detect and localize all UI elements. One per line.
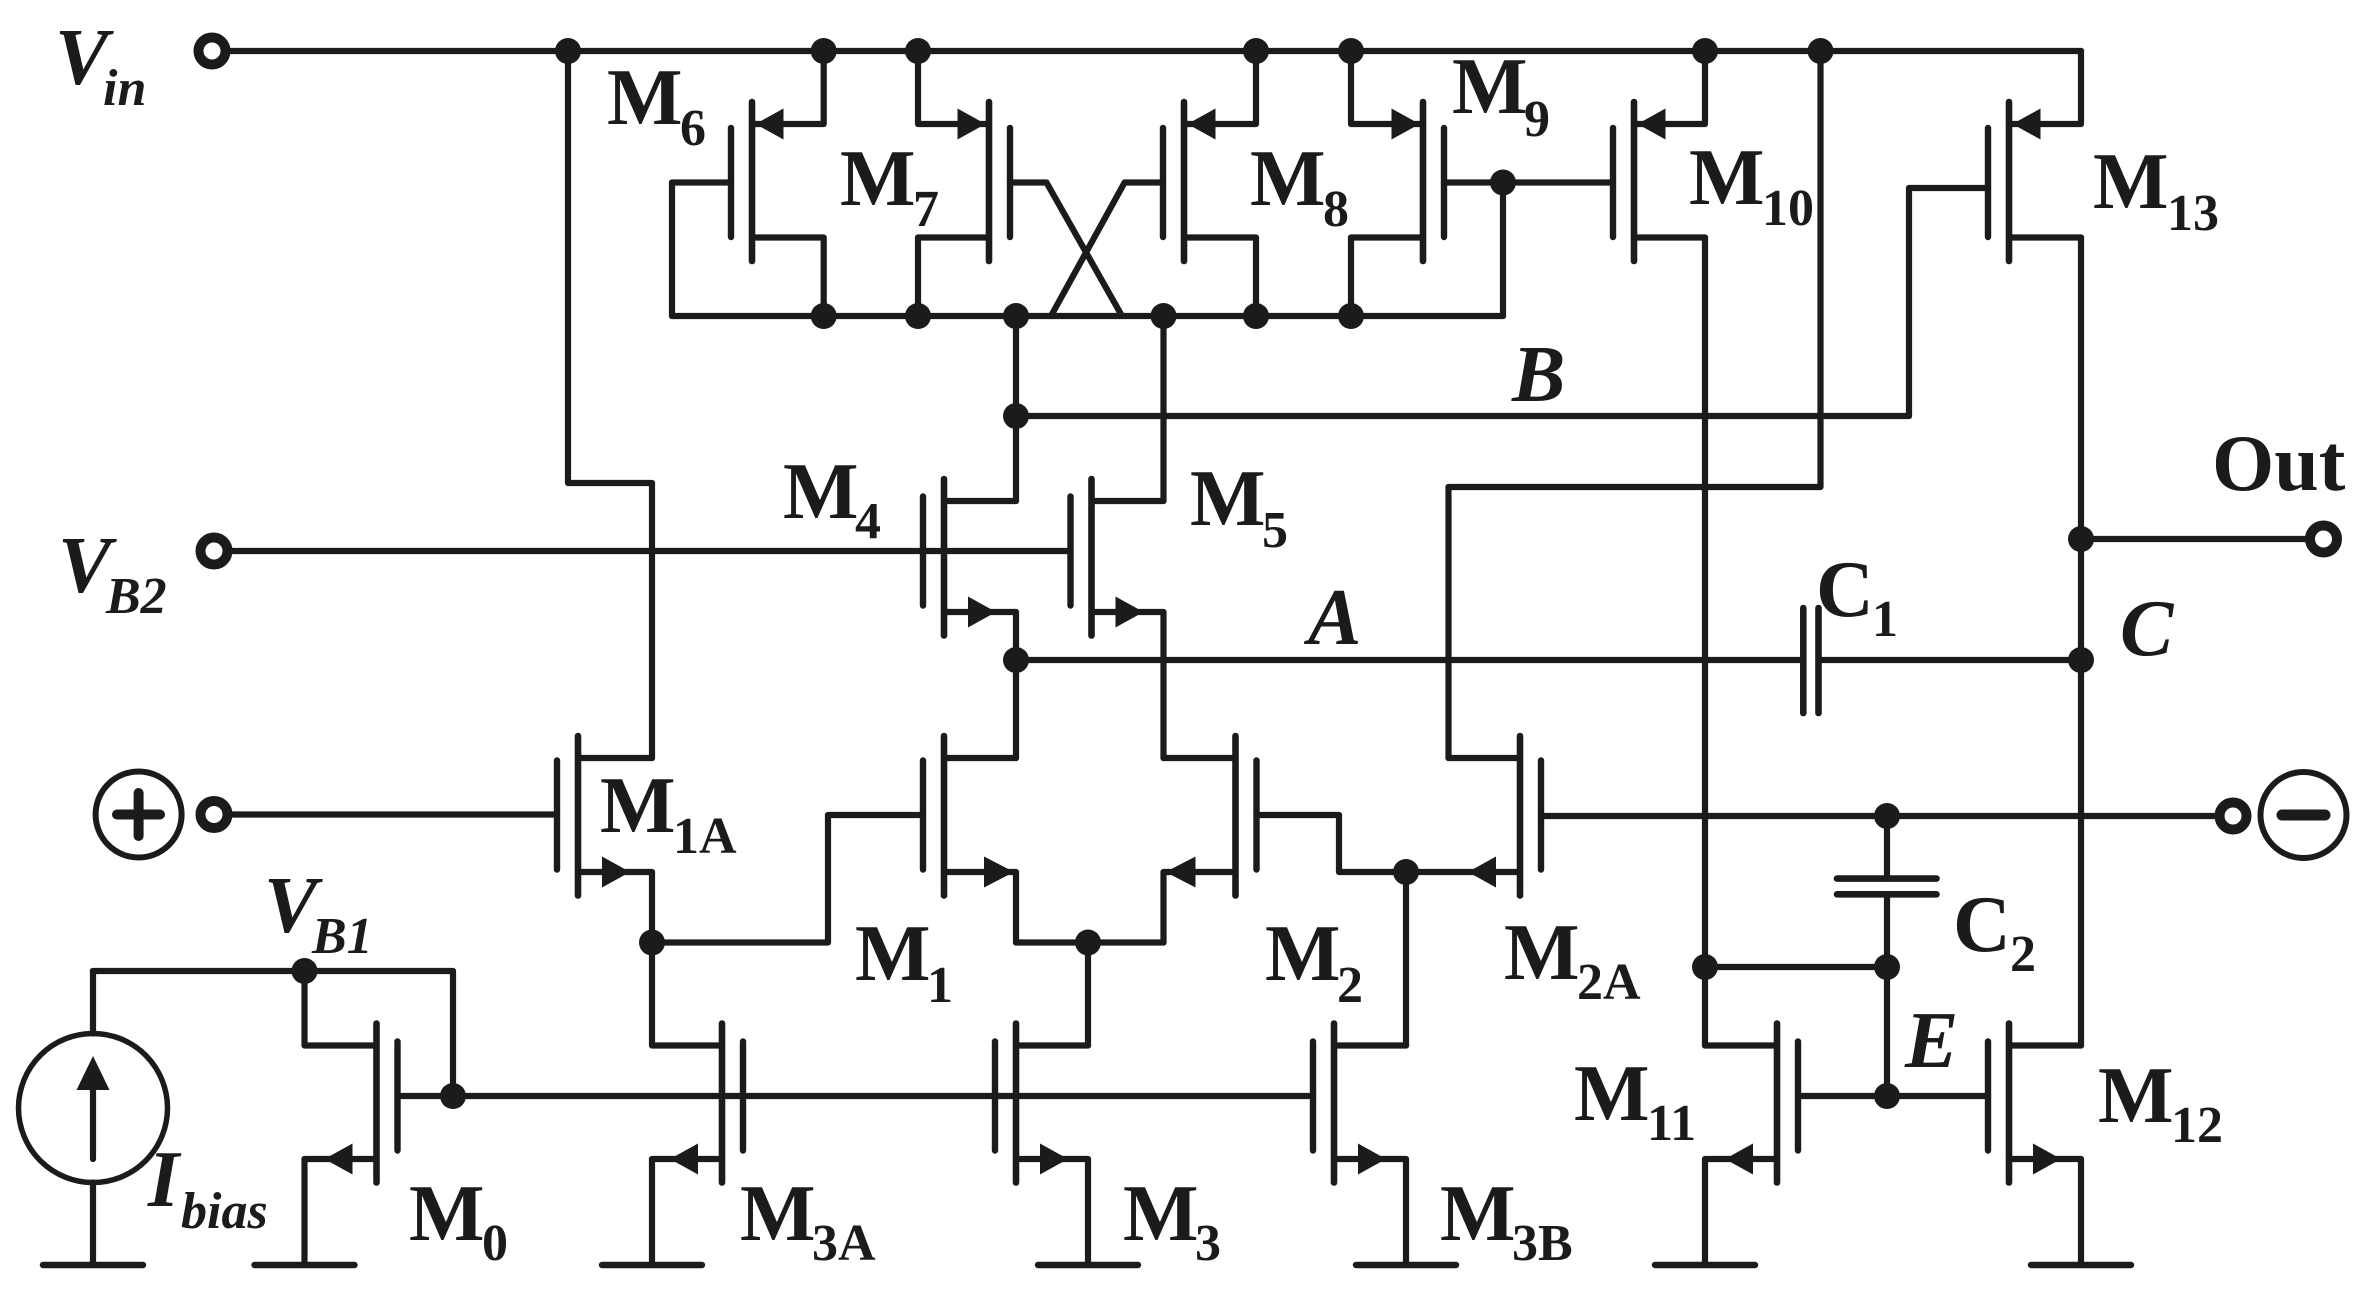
- wire M7 gate cross-coupling diagonal: [1010, 183, 1122, 317]
- wire M0 source to ground: [305, 1159, 377, 1265]
- label M13: [2093, 138, 2219, 242]
- svg-text:A: A: [1303, 574, 1361, 662]
- svg-text:M: M: [600, 762, 676, 850]
- wire Vin rail down-jog to M1A drain: [568, 51, 652, 758]
- transistor M3B (NMOS): [1313, 1024, 1386, 1183]
- junction dot M1A source node: [639, 930, 665, 956]
- label M8: [1250, 135, 1349, 238]
- svg-text:2A: 2A: [1577, 954, 1641, 1011]
- svg-text:M: M: [607, 54, 683, 142]
- svg-text:11: 11: [1647, 1095, 1696, 1152]
- Out terminal: [2310, 526, 2337, 553]
- wire C2 link to M10 column: [1705, 964, 1887, 970]
- label M3B: [1440, 1170, 1573, 1272]
- label M2A: [1504, 909, 1641, 1011]
- junction dot minus line C2 tap: [1874, 803, 1900, 829]
- svg-text:M: M: [1265, 910, 1341, 998]
- label M10: [1689, 134, 1814, 237]
- transistor M4 (NMOS cascode): [923, 479, 996, 636]
- node C label: [2120, 585, 2175, 673]
- transistor M9 (PMOS): [1392, 102, 1445, 261]
- svg-text:M: M: [783, 448, 859, 536]
- svg-text:C: C: [2120, 585, 2175, 673]
- transistor M7 (PMOS): [958, 102, 1011, 261]
- transistor M5 (NMOS cascode): [1071, 479, 1144, 636]
- wire M12 drain lead: [2009, 1042, 2081, 1048]
- junction dot tail node: [1075, 930, 1101, 956]
- wire node A horizontal to C1: [1016, 657, 1803, 663]
- wire M0 gate to bias rail: [398, 1093, 454, 1099]
- wire M9 gate to M10 gate: [1444, 179, 1613, 185]
- svg-text:8: 8: [1323, 181, 1349, 238]
- svg-text:M: M: [1689, 134, 1765, 222]
- node C junction dot: [2068, 647, 2094, 673]
- wire M1 source to tail: [944, 872, 1016, 943]
- svg-text:1A: 1A: [673, 808, 737, 865]
- label M3: [1123, 1170, 1221, 1272]
- transistor M6 (PMOS): [731, 102, 784, 261]
- wire M1A drain lead: [578, 755, 652, 761]
- svg-text:I: I: [147, 1136, 182, 1224]
- wire M6 source to mirror bus: [752, 238, 824, 317]
- svg-text:M: M: [1440, 1170, 1516, 1258]
- transistor M11 (NMOS): [1725, 1024, 1798, 1183]
- transistor M0 (NMOS diode): [325, 1024, 398, 1183]
- junction dot M2A source node: [1393, 859, 1419, 885]
- wire M10 source lead: [1634, 234, 1705, 240]
- svg-text:7: 7: [913, 181, 939, 238]
- ground M11: [1655, 1262, 1755, 1268]
- VB2 input terminal: [201, 538, 228, 565]
- wire C2 bottom plate down to node E: [1884, 894, 1890, 1096]
- transistor M13 (PMOS): [1988, 102, 2041, 261]
- wire M2A drain lead: [1449, 755, 1521, 761]
- plus input circle symbol: [96, 772, 182, 858]
- junction dot VB1: [292, 958, 318, 984]
- label M6: [607, 54, 706, 157]
- wire Ibias top to VB1: [90, 971, 96, 1034]
- label M12: [2098, 1052, 2223, 1154]
- svg-text:B: B: [1511, 331, 1565, 419]
- wire M8 drain to rail: [1184, 51, 1256, 124]
- label Vin: [55, 14, 146, 117]
- svg-text:13: 13: [2167, 185, 2219, 242]
- label M1: [855, 910, 953, 1014]
- wire M1 drain to node A: [944, 755, 1016, 761]
- svg-text:C: C: [1953, 881, 2011, 969]
- junction dot M0 gate bias: [440, 1083, 466, 1109]
- wire M7 source to mirror bus: [918, 238, 989, 317]
- wire M3A source to ground: [652, 1159, 722, 1265]
- wire M4 drain lead: [944, 498, 1016, 504]
- svg-text:0: 0: [482, 1215, 508, 1272]
- wire VB1 line: [93, 971, 453, 1096]
- ground M3A: [602, 1262, 702, 1268]
- label M5: [1190, 455, 1288, 559]
- wire node B horizontal: [1016, 413, 1909, 419]
- wire M13 source lead: [2009, 234, 2081, 240]
- wire M10 drain column down to M11 drain: [1702, 238, 1708, 1046]
- wire C1 right plate to node C: [1819, 657, 2082, 663]
- wire bus to node B to M4 drain: [1013, 316, 1019, 501]
- wire M12 source to ground: [2009, 1159, 2081, 1265]
- wire M2 drain lead: [1164, 755, 1236, 761]
- junction dot C2 bottom link: [1874, 954, 1900, 980]
- capacitor C2: [1837, 879, 1937, 895]
- svg-text:M: M: [409, 1170, 485, 1258]
- transistor M1A (NMOS): [557, 736, 630, 896]
- wire output to Out terminal: [2081, 536, 2305, 542]
- svg-text:10: 10: [1762, 180, 1814, 237]
- plus input terminal: [201, 801, 228, 828]
- svg-text:4: 4: [855, 493, 881, 550]
- wire M11 gate to M12 gate node E: [1798, 1093, 1988, 1099]
- wire M9 drain to rail: [1351, 51, 1423, 124]
- label C1: [1816, 546, 1898, 648]
- svg-text:M: M: [740, 1170, 816, 1258]
- svg-text:Out: Out: [2212, 420, 2346, 508]
- node E label: [1904, 997, 1958, 1085]
- junction dot M10 column C2 link: [1692, 954, 1718, 980]
- wire M13 gate to node B riser: [1909, 188, 1988, 416]
- wire cross-coupled mirror bus: [672, 313, 1503, 319]
- wire M11 source to ground: [1705, 1159, 1777, 1265]
- wire M3B drain lead: [1334, 1042, 1406, 1048]
- Vin input terminal: [199, 38, 226, 65]
- wire M3 source to ground: [1016, 1159, 1088, 1265]
- wire M2A source node down to M3B: [1403, 872, 1409, 1046]
- transistor M3 (NMOS): [995, 1024, 1068, 1183]
- wire M10 drain to rail: [1634, 51, 1705, 124]
- label Out: [2212, 420, 2346, 508]
- ground M3: [1038, 1262, 1138, 1268]
- capacitor C1: [1803, 608, 1818, 713]
- wire M3B source to ground: [1334, 1159, 1406, 1265]
- transistor M2A (NMOS cascode): [1468, 736, 1541, 896]
- wire M7 drain to rail: [918, 51, 989, 124]
- wire M3A drain up to M1A source node: [652, 943, 722, 1046]
- transistor M10 (PMOS): [1613, 102, 1666, 261]
- label VB1: [264, 862, 373, 965]
- svg-text:12: 12: [2171, 1097, 2223, 1154]
- label M4: [783, 448, 881, 550]
- svg-text:3: 3: [1195, 1215, 1221, 1272]
- wire M6 drain to rail: [752, 51, 824, 124]
- svg-text:3A: 3A: [812, 1215, 876, 1272]
- label C2: [1953, 881, 2036, 983]
- svg-text:1: 1: [1872, 591, 1898, 648]
- ground M12: [2031, 1262, 2131, 1268]
- wire M11 drain lead: [1705, 1042, 1777, 1048]
- wire VB2 to M4 M5 gates: [232, 548, 1071, 554]
- wire M9 source to mirror bus: [1351, 238, 1423, 317]
- svg-text:bias: bias: [181, 1183, 268, 1240]
- svg-text:M: M: [2093, 138, 2169, 226]
- wire M5 drain lead: [1092, 498, 1164, 504]
- svg-text:3B: 3B: [1512, 1215, 1573, 1272]
- svg-text:M: M: [1574, 1050, 1650, 1138]
- label Ibias: [147, 1136, 268, 1240]
- wire M3 drain lead: [1016, 1042, 1088, 1048]
- wire bias rail to M3A M3 M3B gates: [453, 1093, 1313, 1099]
- label VB2: [58, 522, 167, 625]
- ground M3B: [1356, 1262, 1456, 1268]
- junction dot output node: [2068, 526, 2094, 552]
- wire M8 source to mirror bus: [1184, 238, 1256, 317]
- label M9: [1452, 43, 1550, 148]
- transistor M8 (PMOS): [1163, 102, 1216, 261]
- wire M13 source output column down to M12 drain: [2078, 238, 2084, 1046]
- svg-text:M: M: [1250, 135, 1326, 223]
- svg-text:9: 9: [1524, 91, 1550, 148]
- label M1A: [600, 762, 737, 865]
- wire M2A source lead: [1406, 869, 1520, 875]
- svg-text:M: M: [855, 910, 931, 998]
- transistor M1 (NMOS): [923, 736, 1014, 896]
- node A junction dot: [1003, 647, 1029, 673]
- wire gate link down to mirror bus: [1500, 183, 1506, 317]
- wire M2A gate to minus input: [1541, 813, 2215, 819]
- svg-text:E: E: [1904, 997, 1958, 1085]
- ground Ibias: [43, 1262, 143, 1268]
- svg-text:2: 2: [2010, 926, 2036, 983]
- svg-text:M: M: [1504, 909, 1580, 997]
- node B label: [1511, 331, 1565, 419]
- minus input terminal: [2220, 803, 2247, 830]
- wire M8 gate cross-coupling diagonal: [1051, 183, 1163, 317]
- wire M1A node to M1 gate: [652, 815, 923, 943]
- label M3A: [740, 1170, 876, 1272]
- minus input circle symbol: [2261, 772, 2347, 858]
- transistor M3A (NMOS): [670, 1024, 743, 1183]
- svg-text:M: M: [1190, 455, 1266, 543]
- wire M2 gate to M2A source: [1257, 815, 1407, 872]
- svg-text:2: 2: [1337, 957, 1363, 1014]
- svg-text:B1: B1: [311, 908, 373, 965]
- wire M0 drain up to VB1: [305, 971, 377, 1046]
- svg-text:M: M: [840, 135, 916, 223]
- wire tail down to M3 drain: [1085, 943, 1091, 1046]
- svg-text:in: in: [103, 60, 146, 117]
- wire Vin top supply rail: [229, 48, 2081, 54]
- ground M0: [255, 1262, 355, 1268]
- wire differential tail: [1016, 939, 1164, 945]
- svg-text:1: 1: [927, 957, 953, 1014]
- transistor M2 (NMOS): [1166, 736, 1257, 896]
- wire M2A drain riser and top link: [1449, 51, 1821, 758]
- wire bus down to M5 drain: [1160, 316, 1166, 501]
- junction dots on Vin rail: [555, 38, 1834, 64]
- svg-text:C: C: [1816, 546, 1874, 634]
- wire Ibias bottom to ground: [90, 1183, 96, 1266]
- wire M6 gate feedback to bus: [672, 183, 731, 317]
- svg-text:B2: B2: [105, 568, 167, 625]
- current source Ibias: [19, 1034, 168, 1183]
- wire plus input to M1A gate: [232, 811, 557, 817]
- label M11: [1574, 1050, 1696, 1152]
- junction dot M9-M10 gate link: [1490, 170, 1516, 196]
- svg-text:M: M: [2098, 1052, 2174, 1140]
- node B junction dot: [1003, 403, 1029, 429]
- wire C2 top plate to minus line: [1884, 816, 1890, 879]
- node A label: [1303, 574, 1361, 662]
- wire M1A source down to node: [578, 872, 652, 943]
- svg-text:M: M: [1452, 43, 1528, 131]
- label M7: [840, 135, 939, 238]
- wire M5 source down to M2 drain: [1092, 612, 1164, 758]
- node E junction dot: [1874, 1083, 1900, 1109]
- svg-text:5: 5: [1262, 502, 1288, 559]
- junction dots on mirror bus: [811, 303, 1364, 329]
- svg-text:M: M: [1123, 1170, 1199, 1258]
- wire M4 source to node A: [944, 612, 1016, 758]
- label M0: [409, 1170, 508, 1272]
- svg-text:6: 6: [680, 100, 706, 157]
- wire M13 drain to rail corner: [2009, 51, 2081, 124]
- transistor M12 (NMOS): [1988, 1024, 2061, 1183]
- label M2: [1265, 910, 1363, 1014]
- wire M2 source to tail: [1164, 872, 1236, 943]
